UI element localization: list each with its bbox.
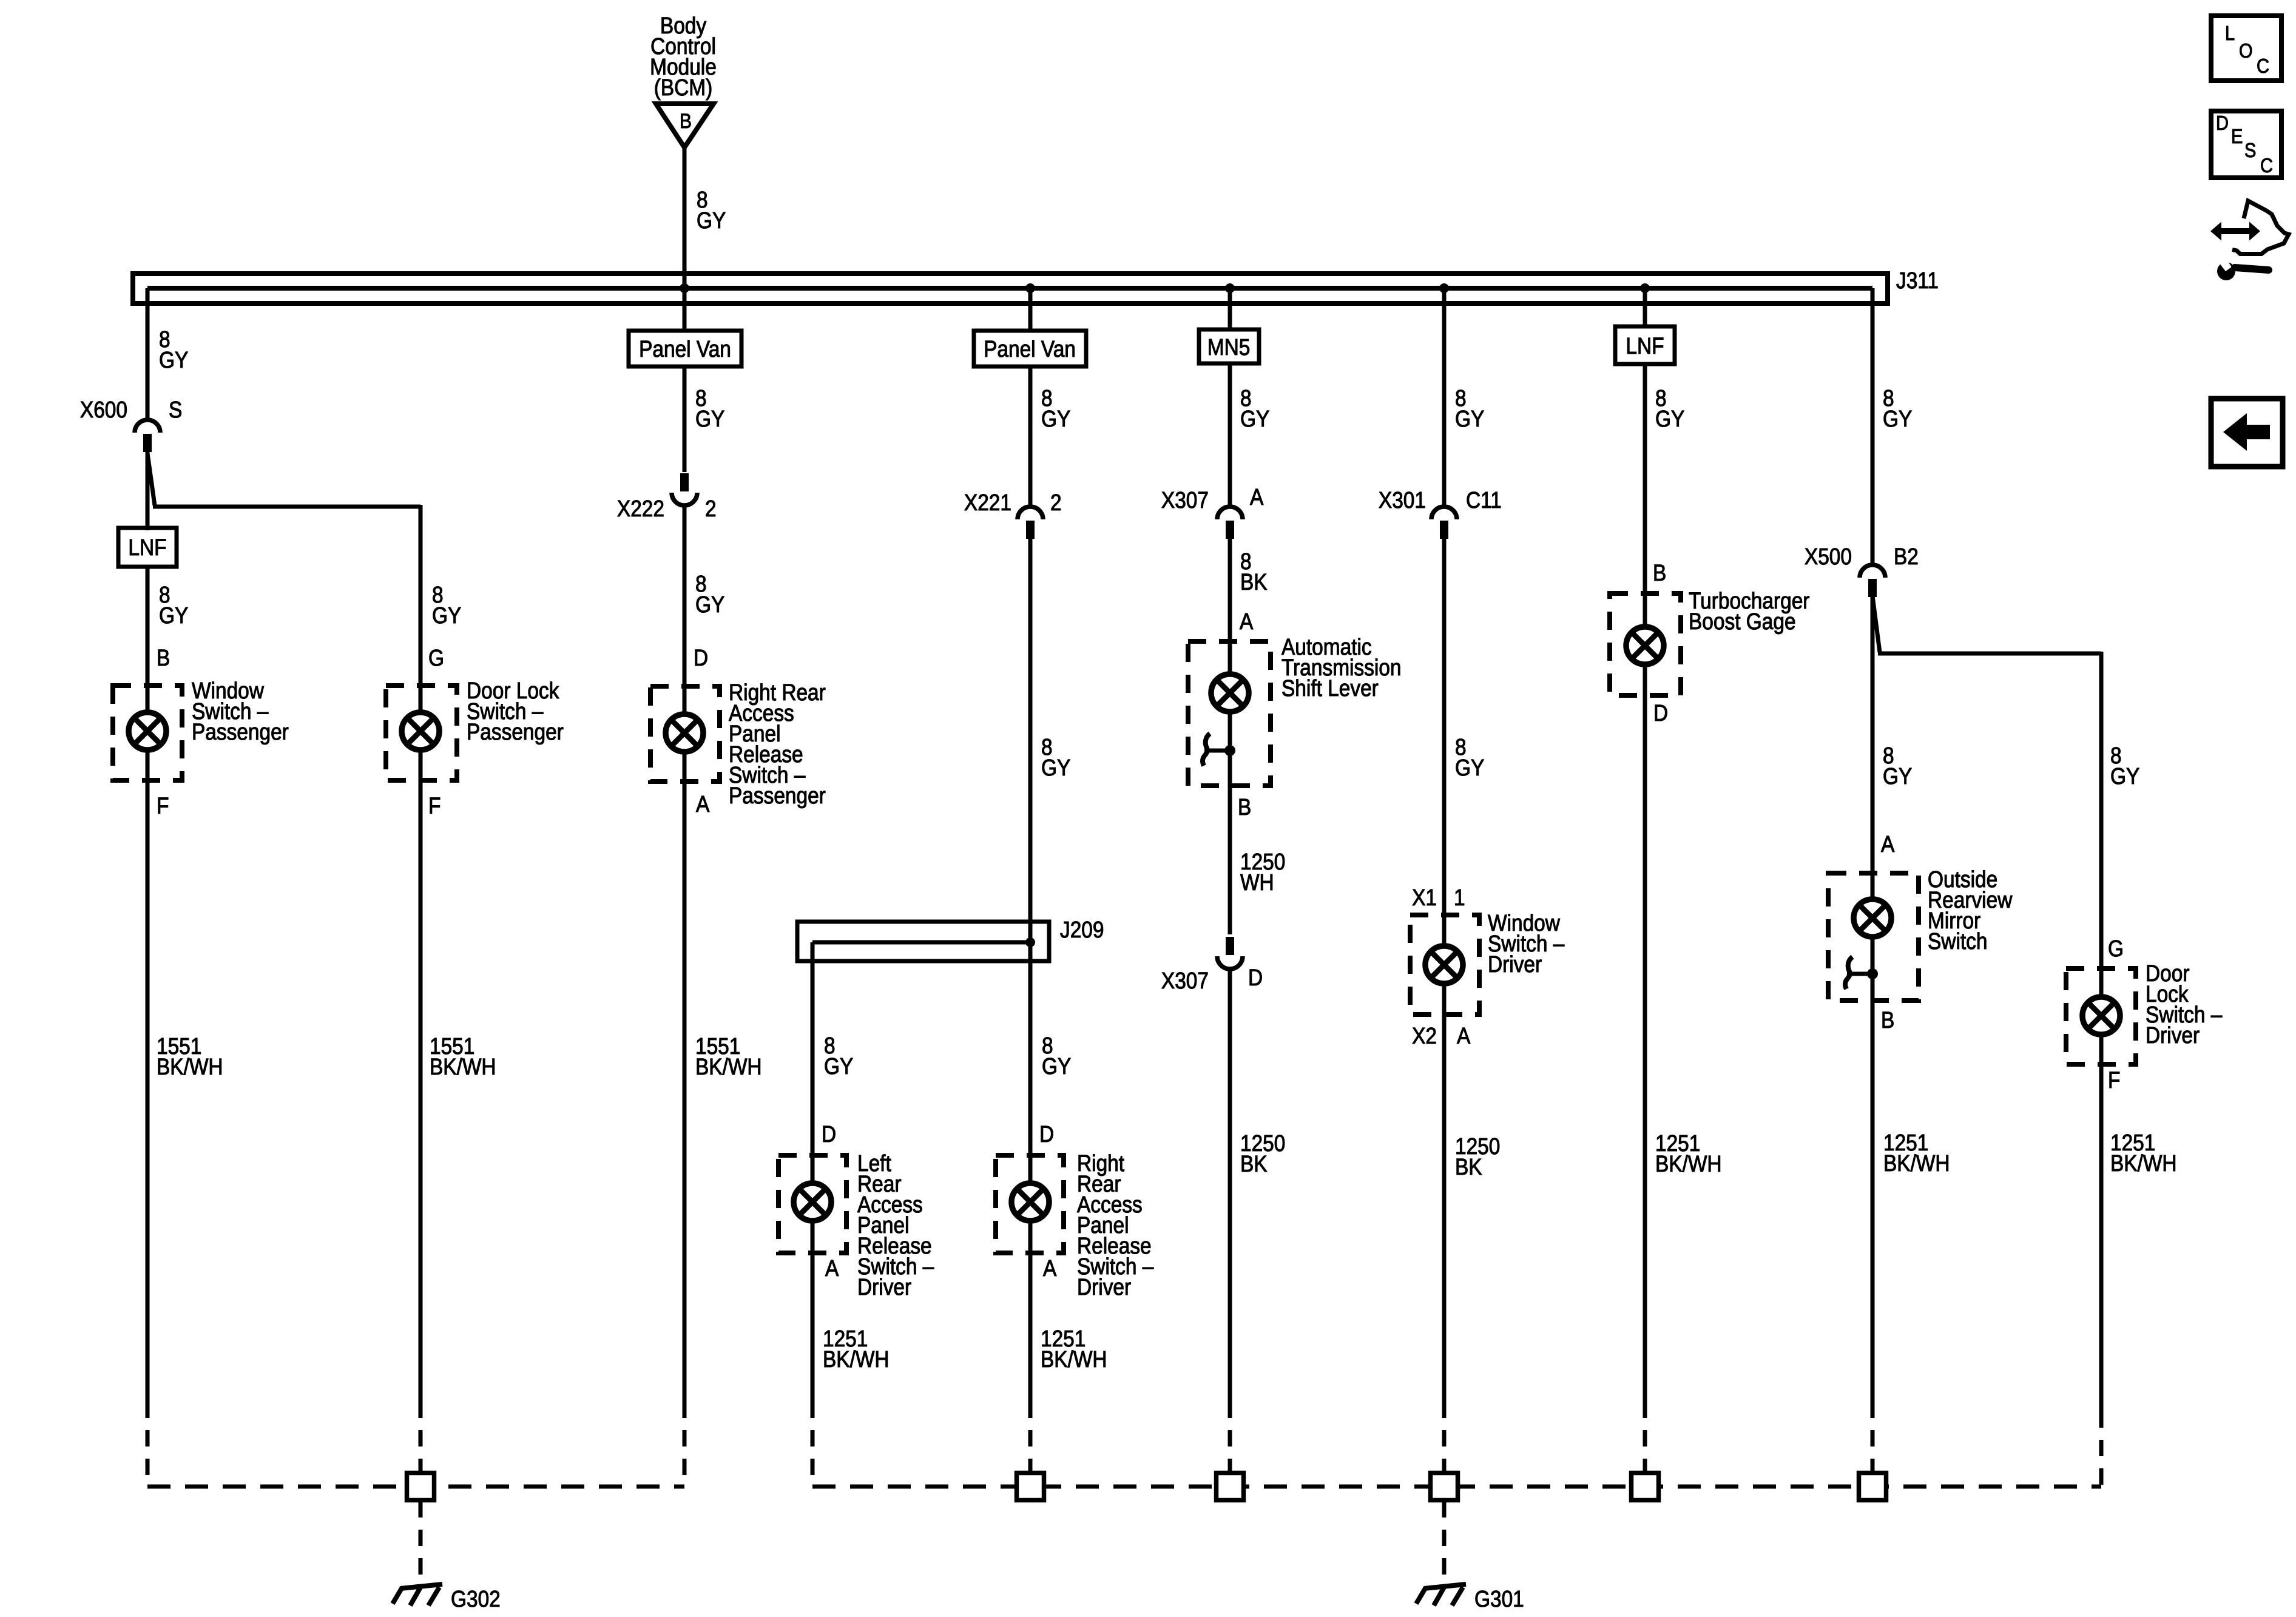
option box LNF (col1) [118, 528, 177, 567]
svg-text:Driver: Driver [1488, 951, 1542, 977]
option box Panel Van 1 [629, 331, 741, 366]
option box MN5 [1199, 329, 1259, 363]
junction dot at X301 drop [1439, 283, 1449, 293]
svg-text:BK: BK [1455, 1154, 1482, 1180]
svg-text:X301: X301 [1379, 487, 1426, 513]
svg-text:D: D [1248, 965, 1263, 990]
svg-text:Driver: Driver [1077, 1274, 1131, 1300]
wire branch down to Door Lock Switch - Driver [2099, 652, 2104, 996]
svg-text:GY: GY [1455, 755, 1484, 780]
svg-text:BK: BK [1240, 569, 1268, 595]
svg-text:BK/WH: BK/WH [157, 1054, 223, 1079]
component Window Switch - Driver (dashed box + lamp) [1410, 915, 1479, 1014]
svg-text:X500: X500 [1805, 544, 1852, 569]
wire Panel Van 1 to X222 [683, 366, 687, 472]
svg-text:2: 2 [1050, 490, 1062, 515]
svg-text:MN5: MN5 [1207, 334, 1251, 360]
svg-text:B: B [1238, 794, 1251, 820]
wire X307 to Automatic Transmission Shift Lever [1228, 539, 1232, 673]
svg-text:Driver: Driver [857, 1274, 911, 1300]
wire bus left end down to X600 [146, 288, 150, 420]
wire branch slant X500 to door lock branch [1872, 596, 1880, 652]
svg-text:C: C [2257, 55, 2269, 77]
wire dashed col7 square to ground G301 [1442, 1501, 1447, 1581]
svg-text:F: F [157, 793, 169, 819]
svg-text:A: A [1043, 1255, 1056, 1281]
wire bus to X301 [1442, 288, 1447, 507]
wire dashed col10 to ground bus [2099, 1411, 2104, 1487]
svg-text:X221: X221 [964, 490, 1011, 515]
wire dashed col8 to ground bus [1643, 1402, 1647, 1473]
junction dot at Panel Van 2 drop [1025, 283, 1035, 293]
svg-text:BK/WH: BK/WH [1041, 1346, 1107, 1372]
wire dashed col9 to ground bus [1871, 1402, 1875, 1473]
svg-text:GY: GY [159, 603, 188, 628]
wire dashed col6 to ground bus [1228, 1402, 1232, 1473]
svg-text:L: L [2225, 22, 2235, 44]
splice square at col8 [1632, 1473, 1659, 1501]
svg-text:GY: GY [1455, 406, 1484, 431]
svg-text:O: O [2239, 39, 2253, 62]
wire col5 down [1028, 1221, 1033, 1402]
svg-text:D: D [822, 1121, 836, 1147]
svg-text:C11: C11 [1466, 487, 1502, 513]
svg-text:Shift Lever: Shift Lever [1281, 675, 1379, 701]
svg-text:WH: WH [1240, 869, 1274, 895]
wire branch horizontal to Door Lock Switch - Driver [1878, 652, 2101, 656]
svg-text:G: G [428, 645, 444, 670]
wire BCM pin B to bus J311 [683, 147, 687, 288]
wire J311 middle conductor [147, 286, 1872, 291]
wire X221 through J209 to switch [1028, 539, 1033, 1183]
splice square at col5 [1017, 1473, 1044, 1501]
svg-text:LNF: LNF [128, 535, 166, 560]
wire bus right end to X500 [1871, 288, 1875, 565]
wire dashed col5 to ground bus [1028, 1402, 1033, 1473]
splice square at col9 [1859, 1473, 1886, 1501]
svg-text:G302: G302 [451, 1586, 501, 1612]
component Window Switch - Passenger (dashed box + lamp) [113, 686, 182, 780]
svg-text:D: D [2216, 112, 2229, 134]
component Right Rear Access Panel Release Switch - Passenger (dashed box + lamp) [650, 686, 720, 781]
wire X307 D down [1228, 970, 1232, 1402]
svg-text:X2: X2 [1412, 1023, 1437, 1048]
wire dashed col2 to ground bus [419, 1402, 423, 1473]
svg-text:A: A [1457, 1023, 1470, 1048]
svg-text:2: 2 [705, 496, 717, 521]
wire X301 to Window Switch - Driver [1442, 539, 1447, 945]
switch contact symbol (col9) [1847, 972, 1872, 976]
svg-text:A: A [1240, 609, 1253, 634]
svg-text:BK: BK [1240, 1151, 1268, 1176]
junction dot at MN5 drop [1225, 283, 1235, 293]
svg-text:1: 1 [1454, 885, 1465, 910]
svg-text:G301: G301 [1474, 1586, 1524, 1612]
wire bus to MN5 option box [1228, 288, 1232, 331]
svg-text:B: B [1881, 1007, 1894, 1033]
svg-text:Switch: Switch [1928, 928, 1987, 954]
wire LNF to Turbocharger Boost Gage [1643, 364, 1647, 626]
wire bus to LNF option box [1643, 288, 1647, 328]
component Automatic Transmission Shift Lever (dashed box + lamp + switch) [1188, 641, 1271, 786]
node Body Control Module (BCM) label [650, 13, 717, 100]
svg-text:A: A [1250, 484, 1263, 510]
wire col10 down [2099, 1035, 2104, 1411]
svg-text:D: D [694, 645, 708, 670]
splice square at col6 [1217, 1473, 1244, 1501]
svg-text:BK/WH: BK/WH [823, 1346, 890, 1372]
junction dot at BCM drop [680, 283, 689, 293]
svg-text:LNF: LNF [1626, 333, 1664, 359]
component Turbocharger Boost Gage (dashed box + lamp) [1610, 593, 1681, 695]
wire MN5 to X307 [1228, 363, 1232, 507]
svg-text:G: G [2108, 936, 2124, 961]
wire dashed col3 to ground bus [683, 1402, 687, 1487]
bus J311 outer box [133, 274, 1888, 303]
connector X500 pin B2 [1860, 565, 1885, 578]
svg-text:GY: GY [2110, 763, 2139, 789]
svg-text:C: C [2260, 154, 2273, 177]
junction dot at LNF drop [1640, 283, 1650, 293]
svg-text:Boost Gage: Boost Gage [1689, 609, 1796, 634]
svg-text:GY: GY [824, 1053, 853, 1079]
component Left Rear Access Panel Release Switch - Driver (dashed box + lamp) [778, 1155, 846, 1253]
connector X307 pin D [1226, 937, 1234, 955]
svg-text:X307: X307 [1161, 968, 1209, 993]
component Door Lock Switch - Driver (dashed box + lamp) [2066, 968, 2136, 1064]
wire Window Switch - Passenger to ground net [146, 751, 150, 1402]
svg-text:GY: GY [697, 208, 726, 233]
svg-text:B: B [1653, 560, 1666, 586]
svg-text:A: A [825, 1255, 839, 1281]
connector X307 pin A [1217, 507, 1243, 519]
icon back arrow button [2211, 399, 2283, 467]
wire bus to Panel Van option box 1 [683, 288, 687, 333]
connector triangle B (BCM pin B) [656, 104, 714, 147]
connector X600 pin S [135, 420, 160, 433]
svg-text:Panel Van: Panel Van [984, 336, 1076, 362]
svg-text:Panel Van: Panel Van [639, 336, 731, 362]
svg-text:S: S [169, 397, 182, 422]
wire dashed ground bus right segment [812, 1485, 2101, 1489]
wire X600 to LNF option box [146, 451, 150, 530]
splice pack J209 [797, 922, 1049, 961]
wire col8 down [1643, 666, 1647, 1402]
svg-text:GY: GY [695, 406, 724, 431]
wire col7 down [1442, 984, 1447, 1402]
svg-text:X307: X307 [1161, 487, 1209, 513]
svg-text:BK/WH: BK/WH [1883, 1150, 1950, 1176]
wire branch slant X600 to door lock branch [147, 453, 155, 505]
svg-text:GY: GY [1655, 406, 1684, 431]
icon DESC button [2211, 111, 2281, 178]
svg-text:E: E [2231, 125, 2243, 147]
icon wrench [2217, 255, 2269, 280]
icon car outline with arrow [2210, 201, 2289, 254]
svg-text:BK/WH: BK/WH [695, 1054, 762, 1079]
wire J209 to Left Rear Access Panel Release Switch - Driver [811, 942, 815, 1183]
svg-text:X600: X600 [80, 397, 127, 422]
svg-text:J209: J209 [1060, 917, 1104, 942]
splice square at col2 [407, 1473, 434, 1501]
component Right Rear Access Panel Release Switch - Driver (dashed box + lamp) [996, 1155, 1064, 1253]
svg-text:B2: B2 [1894, 544, 1919, 569]
splice square at col7 [1431, 1473, 1458, 1501]
svg-text:GY: GY [695, 592, 724, 617]
svg-text:Passenger: Passenger [467, 719, 564, 744]
wire col4 down [811, 1221, 815, 1402]
svg-text:Driver: Driver [2146, 1022, 2200, 1048]
ground G302 [400, 1584, 442, 1588]
svg-text:GY: GY [159, 347, 188, 373]
svg-text:BK/WH: BK/WH [430, 1054, 496, 1079]
svg-text:BK/WH: BK/WH [2110, 1150, 2177, 1176]
wire LNF box to Window Switch - Passenger [146, 567, 150, 712]
wire dashed col7 to ground bus [1442, 1402, 1447, 1473]
svg-text:Passenger: Passenger [192, 719, 289, 744]
svg-text:F: F [2108, 1067, 2120, 1093]
svg-text:Passenger: Passenger [729, 783, 826, 808]
connector X301 pin C11 [1431, 507, 1457, 519]
wire dashed col2 square to ground G302 [419, 1501, 423, 1581]
option box Panel Van 2 [974, 331, 1086, 366]
svg-text:D: D [1039, 1121, 1054, 1147]
svg-text:GY: GY [432, 603, 461, 628]
svg-text:GY: GY [1883, 406, 1912, 431]
connector X222 pin 2 [680, 473, 689, 491]
wire dashed col4 to ground bus [811, 1402, 815, 1487]
wire col3 down [683, 752, 687, 1402]
switch contact symbol (col6) [1204, 749, 1230, 753]
wire bus to Panel Van option box 2 [1028, 288, 1033, 333]
component Door Lock Switch - Passenger (dashed box + lamp) [386, 686, 457, 780]
svg-text:D: D [1653, 700, 1668, 726]
component Outside Rearview Mirror Switch (dashed box + lamp + switch) [1828, 873, 1919, 1001]
wire Panel Van 2 to X221 [1028, 366, 1033, 507]
wire Door Lock Switch - Passenger down [419, 751, 423, 1402]
svg-text:GY: GY [1041, 755, 1070, 780]
svg-text:J311: J311 [1896, 268, 1939, 293]
svg-text:S: S [2244, 139, 2256, 161]
wire dashed col1 to ground bus [146, 1402, 150, 1487]
svg-text:B: B [680, 109, 692, 132]
wire X500 down to Outside Rearview Mirror Switch [1871, 596, 1875, 899]
svg-text:GY: GY [1883, 763, 1912, 789]
svg-text:X222: X222 [617, 496, 664, 521]
svg-text:A: A [1881, 831, 1894, 857]
wire X222 to Right Rear Access Panel Release Switch - Passenger [683, 506, 687, 714]
icon LOC button [2211, 16, 2281, 81]
wire branch horizontal to Door Lock Switch - Passenger [153, 505, 420, 509]
svg-text:GY: GY [1041, 406, 1070, 431]
svg-text:BK/WH: BK/WH [1655, 1151, 1722, 1176]
wire dashed ground bus left segment [147, 1485, 684, 1489]
svg-text:F: F [428, 793, 441, 819]
svg-text:A: A [696, 791, 709, 817]
wire branch down to Door Lock Switch - Passenger [419, 505, 423, 712]
connector X221 pin 2 [1018, 507, 1043, 519]
wire col9 down [1871, 937, 1875, 1402]
svg-text:B: B [157, 645, 170, 670]
svg-text:X1: X1 [1412, 885, 1437, 910]
ground G301 [1424, 1584, 1466, 1588]
svg-text:GY: GY [1240, 406, 1269, 431]
option box LNF (col8) [1615, 326, 1675, 364]
wire lamp to switch contact [1228, 712, 1232, 934]
svg-text:(BCM): (BCM) [654, 75, 713, 100]
svg-text:GY: GY [1042, 1053, 1071, 1079]
